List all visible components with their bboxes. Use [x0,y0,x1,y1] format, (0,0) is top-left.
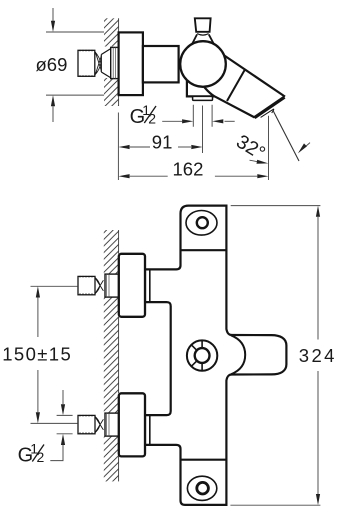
spout joint line (top view) [227,70,245,101]
aerator (top view) [261,109,274,117]
stub divider upper (bottom view) [149,269,151,302]
handle knob (top view) [195,18,211,32]
spout mouth rim (top view) [255,97,285,118]
dim ø69 extension line top [46,31,104,33]
wall extension line (top view dims) [117,113,119,181]
valve body circle (top view) [180,41,226,87]
supply union neck (top view) [95,52,102,76]
shower outlet nipple G1/2 (top view) [193,96,213,100]
wall hatch strip 2 (bottom view) [104,297,119,413]
dim 91 line + arrows [130,146,150,148]
dim G1/2 extension lines (bottom view) [57,415,73,433]
shower outlet stub (top view) [187,78,215,96]
bottom tab top edge (bottom view) [181,459,227,461]
dim G1/2 lower arrow + leader (bottom view) [50,445,63,461]
spout body (top view) [210,46,286,97]
upper supply neck (bottom view) [95,278,103,294]
svg-text:2: 2 [37,449,45,465]
outlet extension lines G1/2 (top view) [193,105,212,127]
dim ø69 extension line bottom [46,94,104,96]
lower escutcheon (bottom view) [119,393,145,456]
screw boss inner circle [195,348,210,363]
handle neck (top view) [197,34,208,36]
dim G1/2 upper arrow (bottom view) [62,390,64,404]
dim 324 extension line bottom [230,504,320,506]
dim 324 line upper part + arrow [317,217,319,340]
dim 150 extension line bottom [31,422,78,424]
wall hatch upper patch (top view) [104,18,119,46]
dim 324 line lower part + arrow [317,371,319,494]
svg-text:2: 2 [148,110,156,126]
spout tip extension line (top view) [268,116,270,180]
lower supply flange cylinder (bottom view) [105,413,119,436]
dim ø69 lower stub + arrow [52,106,54,122]
spout bottom edge (top view) [205,87,255,117]
water stream line 32deg [273,110,300,162]
upper supply knurled nipple (bottom view) [78,276,95,295]
top tab bottom edge (bottom view) [181,249,227,251]
lower supply knurled nipple (bottom view) [78,415,95,434]
handle dome arc (bottom view) [231,335,245,374]
svg-text:162: 162 [173,159,204,180]
upper supply flange cylinder (bottom view) [105,274,119,297]
outlet centre line (top view) [202,106,204,154]
dim 150 extension line top [31,285,78,287]
lower supply neck (bottom view) [95,417,103,433]
bottom mounting hole inner circle [197,482,209,494]
dim 150 line lower part + arrow [37,370,39,412]
top mounting hole inner circle [197,217,208,228]
svg-text:150±15: 150±15 [2,343,72,364]
handle flare left (top view) [192,34,197,43]
stub divider lower (bottom view) [149,415,151,445]
bottom mounting hole ellipse (bottom view) [187,476,216,500]
32deg arrow to extension line [250,160,258,161]
top mounting hole ellipse (bottom view) [186,211,217,236]
upper escutcheon (bottom view) [119,254,145,317]
handle flare right (top view) [209,34,214,43]
svg-text:91: 91 [152,132,173,153]
mixer body barrel (top view) [143,46,179,82]
screw boss spokes [191,340,202,371]
dim text G1/2 (bottom view) [18,440,45,466]
dim 324 extension line top [231,205,321,207]
wall hatch strip 3 (bottom view) [104,436,119,481]
dim ø69 upper stub + arrow [52,8,54,21]
wall flange of mixer (top view) [119,32,143,95]
wall face line (bottom view) [118,230,120,481]
dim text G1/2 (top view) [130,102,157,128]
32deg arrow to stream line [305,143,310,147]
dim G1/2 (top view) line + arrows [162,120,182,122]
supply union knurled block (top view) [78,50,95,77]
supply union disc at wall (top view) [111,47,119,78]
wall face line (top view) [118,18,120,106]
wall hatch strip 1 (bottom view) [104,230,119,274]
svg-text:324: 324 [299,345,337,366]
svg-text:ø69: ø69 [36,54,68,75]
dim 162 line + arrows [130,175,168,177]
supply union cone (top view) [101,49,110,78]
screw boss outer circle (bottom view) [187,340,217,370]
wall hatch lower patch (top view) [104,78,119,106]
dim 150 line upper part + arrow [37,298,39,338]
mixer body outline (bottom view) [145,206,286,505]
